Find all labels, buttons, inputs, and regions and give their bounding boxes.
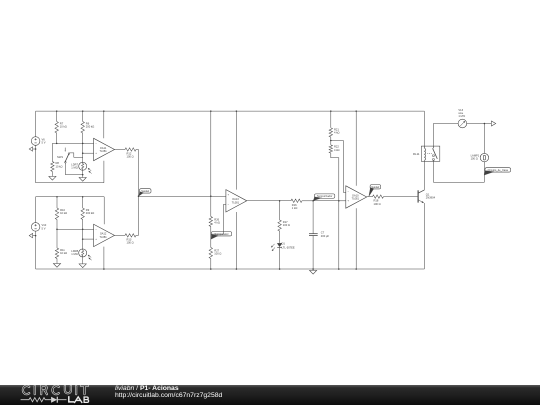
resistor R7 10k [55, 111, 67, 143]
node comparator plus junction [210, 195, 212, 197]
resistor R10 10k [55, 197, 67, 230]
LED D1 [271, 242, 295, 251]
svg-text:LTL-307EE: LTL-307EE [282, 245, 295, 249]
wire LDR8 to ground [82, 257, 84, 263]
svg-text:1 MΩ: 1 MΩ [71, 252, 77, 256]
wire OA13 V- pin [235, 212, 237, 269]
wire V10 to bottom bus [35, 231, 37, 269]
wire OA10 output [367, 196, 373, 198]
wire lamp to loop bottom [483, 162, 485, 183]
wire comparator output [247, 200, 291, 202]
node OA13 V- at bus [236, 268, 238, 270]
CircuitLab logo text CIRCUIT (vector outline) [23, 386, 88, 394]
ground below LDR7 [79, 176, 86, 181]
svg-text:4 kΩ: 4 kΩ [214, 220, 220, 224]
resistor R6 200k [81, 111, 94, 143]
flag Saida1 [139, 189, 152, 197]
resistor R17 100 [278, 201, 290, 243]
wire loop up to relay [432, 161, 434, 182]
node top-bus junction at OA11 V+ [103, 110, 105, 112]
photoresistor LDR8 [71, 249, 91, 260]
svg-text:1 MΩ: 1 MΩ [71, 165, 77, 169]
node top-bus junction at R7 [56, 110, 58, 112]
wire flag node to C7 [312, 201, 314, 234]
wire block1 bottom return [36, 182, 104, 184]
svg-text:4 kΩ: 4 kΩ [334, 148, 340, 152]
node R10 bottom junction [56, 229, 58, 231]
wire R16 to rail [313, 200, 339, 202]
svg-text:200 µF: 200 µF [321, 234, 330, 238]
wire output node vertical [138, 150, 140, 236]
svg-text:100 Ω: 100 Ω [214, 251, 221, 255]
wire R9 to LDR8 [82, 229, 84, 249]
wire OA12 V- pin [103, 247, 105, 269]
node R6 bottom junction [82, 143, 84, 145]
svg-text:TL081: TL081 [99, 149, 107, 153]
wire emitter to bus corner [423, 203, 425, 269]
wire OA11 minus input [52, 142, 93, 144]
resistor R27 100 [209, 248, 221, 270]
node divider junction [330, 140, 332, 142]
label R26 [214, 217, 220, 224]
wire OA10 V+ pin [355, 111, 357, 186]
svg-text:100 Ω: 100 Ω [283, 223, 290, 227]
ground below LDR8 [79, 263, 86, 268]
wire SW1 pole down [65, 163, 82, 175]
relay RL11 box [413, 146, 440, 161]
ground flag left of V6 [29, 147, 36, 151]
flag Saida2 [369, 185, 381, 197]
node R7 bottom junction [56, 143, 58, 145]
svg-text:−: − [228, 203, 230, 207]
svg-text:100 Ω: 100 Ω [471, 157, 478, 161]
op-amp OA12 TL081 [94, 224, 115, 246]
wire rail to OA10 plus [339, 200, 346, 202]
node LED at bus [279, 268, 281, 270]
wire top supply bus [36, 110, 425, 112]
wire top bus corner to V6 [35, 111, 37, 137]
svg-text:10 kΩ: 10 kΩ [60, 125, 67, 129]
resistor R22 4k [329, 141, 339, 201]
svg-text:TL081: TL081 [352, 197, 360, 201]
ground below bus [310, 269, 317, 274]
CircuitLab logo resistor squiggle [21, 398, 51, 402]
svg-text:1 kΩ: 1 kΩ [292, 206, 298, 210]
voltage source V6 [31, 137, 45, 146]
antenna flag right [484, 121, 496, 126]
svg-text:+: + [228, 193, 230, 197]
svg-text:RL11: RL11 [413, 152, 420, 156]
wire OA13 minus feedback [211, 205, 226, 235]
node top-bus junction at OA13 V+ [236, 110, 238, 112]
svg-text:TL081: TL081 [232, 200, 240, 204]
wire C7 to bus [312, 236, 314, 269]
svg-text:1 kHz: 1 kHz [458, 114, 465, 118]
wire block2 top corner to V10 [35, 197, 37, 223]
svg-text:10 kΩ: 10 kΩ [56, 164, 63, 168]
node top-bus junction at R26 rail [210, 110, 212, 112]
wire OA11 V+ pin [103, 111, 105, 138]
node R22 rail at bus [338, 268, 340, 270]
svg-text:−: − [347, 189, 349, 193]
svg-text:SW1: SW1 [57, 155, 64, 159]
svg-text:C7: C7 [321, 230, 325, 234]
svg-text:−: − [95, 227, 97, 231]
node block2 junction at R10 [56, 196, 58, 198]
node OA12 V- at bus [103, 268, 105, 270]
wire collector to relay [423, 161, 425, 190]
node R22 rail crossing [338, 200, 340, 202]
switch SW1 [57, 148, 83, 163]
node block2 plus-wire junction [82, 238, 84, 240]
relay coil [424, 146, 427, 161]
flag Temporizador [313, 194, 335, 201]
svg-text:D1: D1 [282, 242, 286, 246]
resistor R21 4k [329, 111, 339, 140]
photoresistor LDR7 [71, 162, 91, 173]
node block2 junction at R9 [82, 196, 84, 198]
wire to AC source [433, 123, 458, 125]
ground below R8 [49, 175, 56, 180]
op-amp OA11 TL081 [94, 138, 115, 160]
svg-text:TL081: TL081 [99, 235, 107, 239]
svg-text:100 Ω: 100 Ω [127, 241, 134, 245]
wire bottom bus [36, 268, 425, 270]
svg-text:10 kΩ: 10 kΩ [60, 211, 67, 215]
node temporizador junction [312, 200, 314, 202]
resistor R8 10k [51, 143, 63, 175]
voltage source V10 [31, 223, 46, 232]
wire block2 top [36, 196, 105, 198]
lamp LAMP1 [471, 153, 489, 161]
node top-bus junction at OA10 V+ [355, 110, 357, 112]
wire Saida1 to comparator [139, 195, 226, 197]
svg-text:200 kΩ: 200 kΩ [86, 211, 94, 215]
transistor Q1 2N3904 [418, 190, 435, 203]
wire lamp loop bottom [433, 181, 484, 183]
capacitor C7 200u [309, 230, 329, 238]
wire OA10 V- pin [355, 208, 357, 269]
svg-text:5 V: 5 V [42, 226, 46, 230]
wire relay coil to top bus [423, 111, 425, 146]
resistor R11 10k [55, 229, 67, 262]
resistor R12 100 [115, 148, 139, 159]
wire R22 rail to bus [338, 201, 340, 269]
wire V6 to lower-left corner [35, 145, 37, 183]
node SW1/LDR7 bottom junction [82, 174, 84, 176]
wire OA11 V- pin [103, 161, 105, 183]
node plus-wire junction [82, 152, 84, 154]
ground flag left of V10 [29, 233, 36, 237]
wire OA11 plus input [83, 152, 94, 154]
wire OA12 plus input [83, 238, 94, 240]
resistor R18 100 [373, 195, 418, 206]
node C7 at bus [312, 268, 314, 270]
op-amp OA10 TL081 [346, 186, 367, 208]
svg-text:100 Ω: 100 Ω [374, 202, 381, 206]
svg-text:+: + [347, 199, 349, 203]
flag Comparador [211, 232, 232, 240]
wire LDR7 to ground [82, 170, 84, 176]
wire relay switch to AC loop [432, 124, 434, 147]
wire OA12 minus input [57, 228, 94, 230]
resistor R16 1k [291, 199, 313, 210]
svg-text:100 Ω: 100 Ω [127, 155, 134, 159]
node top-bus junction at R21 [330, 110, 332, 112]
node LED branch junction [279, 200, 281, 202]
wire corner down to lamp [483, 124, 485, 154]
wire OA13 V+ pin [235, 111, 237, 189]
wire LED to bus [279, 248, 281, 270]
CircuitLab logo text LAB (vector) [69, 397, 89, 403]
svg-text:10 kΩ: 10 kΩ [60, 251, 67, 255]
ground below R11 [53, 262, 60, 267]
svg-text:4 kΩ: 4 kΩ [334, 131, 340, 135]
svg-text:+: + [95, 237, 97, 241]
node R9 bottom junction [82, 229, 84, 231]
node OA10 V- at bus [355, 268, 357, 270]
svg-text:+: + [95, 151, 97, 155]
wire divider feedback to OA10 [331, 141, 346, 193]
wire R6 to LDR7 [82, 143, 84, 162]
wire OA12 V+ pin [103, 197, 105, 224]
op-amp OA13 TL081 [226, 190, 247, 212]
wire AC source to lamp corner [467, 123, 485, 125]
resistor R13 100 [115, 234, 139, 245]
svg-text:2N3904: 2N3904 [426, 195, 436, 199]
svg-text:200 kΩ: 200 kΩ [86, 125, 94, 129]
svg-text:−: − [95, 141, 97, 145]
flag Circuito_de_Casa [484, 168, 511, 175]
node top-bus junction at R6 [82, 110, 84, 112]
CircuitLab logo diode [51, 397, 66, 403]
relay dashed link [427, 153, 432, 155]
resistor R26 4k rail upper [209, 111, 212, 247]
node Saida1 junction [138, 195, 140, 197]
AC source V13 [458, 108, 467, 128]
node R27 at bus [210, 268, 212, 270]
svg-text:5 V: 5 V [42, 140, 46, 144]
relay switch blade [433, 146, 438, 161]
resistor R9 200k [81, 197, 94, 230]
